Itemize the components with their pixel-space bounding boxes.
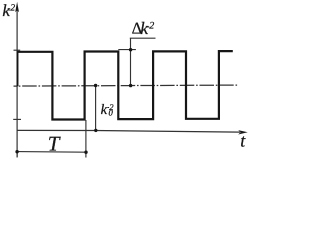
node: dot on time axis bbox=[94, 129, 97, 132]
label k0^2 bbox=[101, 102, 115, 118]
svg-text:0: 0 bbox=[109, 108, 114, 118]
thin high-level reference line between pulses 2 and 3 bbox=[118, 49, 136, 51]
svg-text:k: k bbox=[101, 102, 108, 118]
wire: square wave k^2(t) main path bbox=[17, 51, 233, 119]
time axis bbox=[17, 130, 240, 132]
label k^2 bbox=[2, 1, 15, 20]
svg-text:T: T bbox=[48, 132, 61, 156]
time axis arrowhead bbox=[238, 130, 248, 134]
wire: waveform first edge overlay on axis bbox=[17, 51, 19, 86]
T dimension right extension line bbox=[85, 120, 87, 158]
svg-text:2: 2 bbox=[10, 3, 15, 13]
node: dot at high level bbox=[129, 48, 132, 51]
node: dot at center line bbox=[129, 84, 132, 87]
label delta k^2 bbox=[132, 18, 155, 38]
delta k^2 underline bbox=[130, 37, 156, 39]
y-axis (k^2 axis) line bbox=[16, 8, 18, 157]
y-axis arrowhead bbox=[15, 2, 19, 12]
node: T right dot bbox=[84, 151, 87, 154]
svg-text:2: 2 bbox=[149, 21, 154, 32]
tick low level on axis bbox=[13, 118, 21, 120]
k0^2 leader line bbox=[95, 86, 97, 131]
node: T left dot bbox=[15, 150, 18, 153]
delta k^2 leader line bbox=[130, 38, 132, 85]
T dimension left extension tail bbox=[16, 152, 18, 158]
T dimension line bbox=[17, 151, 86, 154]
center (mean) dash-dot line bbox=[14, 85, 239, 86]
node: dot on center line bbox=[94, 84, 97, 87]
svg-text:k: k bbox=[2, 1, 10, 20]
tick high level on axis bbox=[14, 49, 21, 51]
svg-text:k: k bbox=[140, 18, 149, 38]
